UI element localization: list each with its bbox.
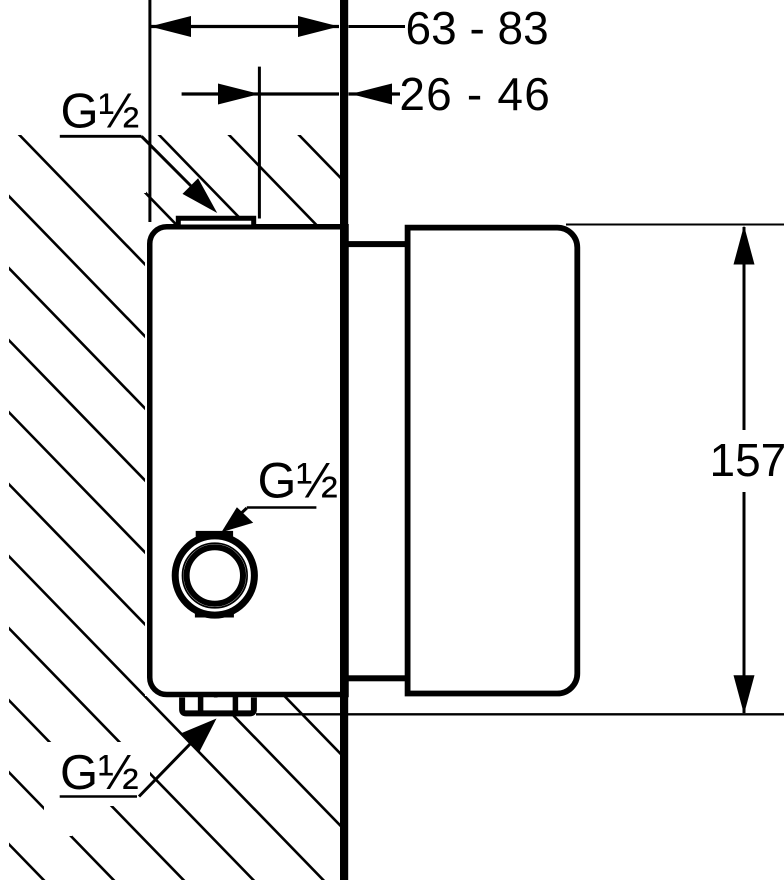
svg-text:G½: G½ xyxy=(60,746,139,800)
svg-text:26 - 46: 26 - 46 xyxy=(399,68,551,120)
svg-text:G½: G½ xyxy=(258,452,339,508)
svg-text:63 - 83: 63 - 83 xyxy=(406,2,549,54)
svg-text:G½: G½ xyxy=(61,84,140,138)
svg-text:157: 157 xyxy=(710,434,784,486)
